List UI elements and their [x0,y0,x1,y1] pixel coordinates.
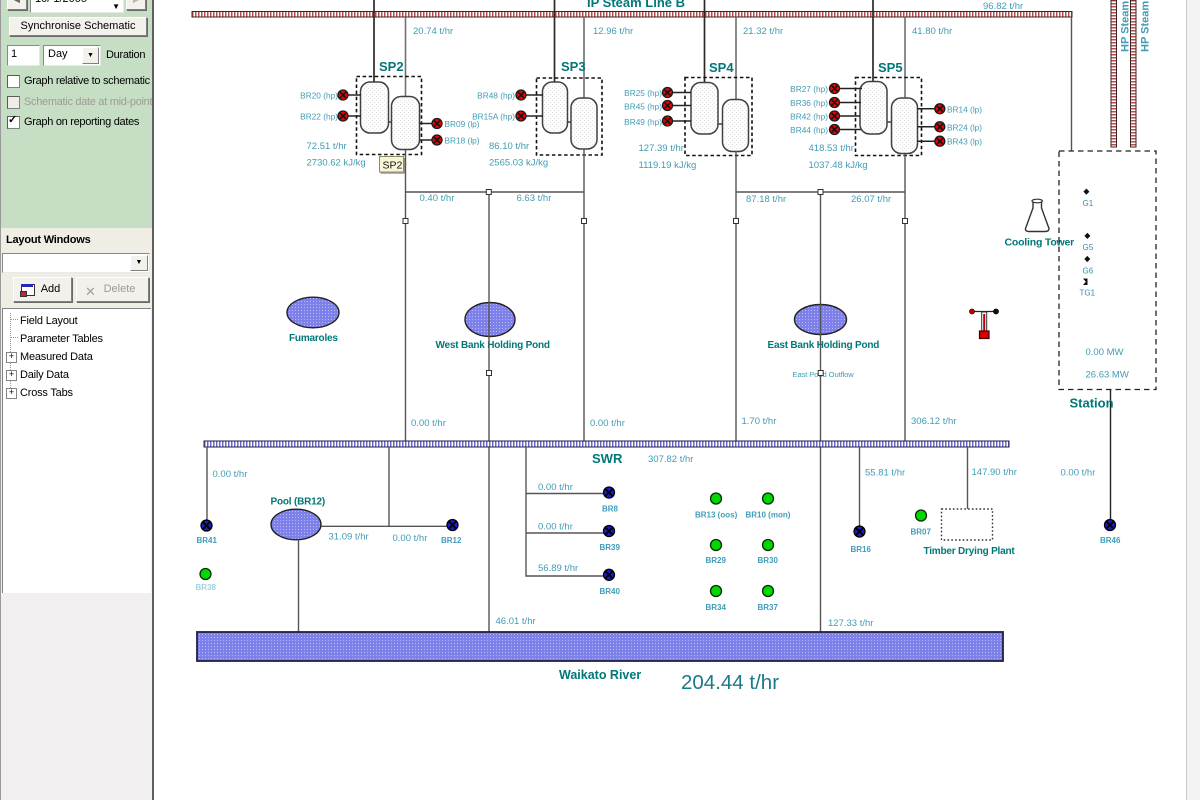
junction SP4 drop [734,219,739,224]
svg-text:G5: G5 [1083,243,1094,252]
svg-text:0.00 t/hr: 0.00 t/hr [393,533,428,544]
svg-text:Waikato River: Waikato River [559,668,641,682]
svg-text:BR36 (hp): BR36 (hp) [790,98,828,108]
bore BR14 [918,104,983,115]
bore BR20 [300,90,361,101]
svg-text:127.39 t/hr: 127.39 t/hr [639,143,684,154]
svg-text:Fumaroles: Fumaroles [289,333,338,344]
svg-text:0.00 t/hr: 0.00 t/hr [538,482,573,493]
svg-text:BR39: BR39 [600,543,621,552]
node BR13 [695,493,738,520]
svg-text:BR42 (hp): BR42 (hp) [790,112,828,122]
svg-text:Station: Station [1070,396,1114,411]
wire SP3 drop [583,149,585,441]
pipe HP steam 2 [1131,0,1152,147]
wire pool horizontal [321,525,448,527]
wire branch BR8 [526,493,604,495]
wire branch BR39 [526,532,604,534]
svg-text:BR34: BR34 [706,603,727,612]
svg-text:SP4: SP4 [709,60,734,75]
svg-text:BR41: BR41 [197,536,218,545]
svg-text:BR16: BR16 [851,545,872,554]
node East Pond Outflow [793,370,855,379]
generator G5 [1083,233,1094,252]
svg-text:SP2: SP2 [379,59,404,74]
junction west pond outflow [487,371,492,376]
turbine TG1 [1080,279,1096,298]
svg-text:BR27 (hp): BR27 (hp) [790,84,828,94]
pump symbol [970,309,999,339]
wire feed SP4 [704,0,706,83]
wire feed SP3 [554,0,556,82]
separator group SP5 [856,60,922,156]
svg-text:12.96 t/hr: 12.96 t/hr [593,26,633,37]
svg-text:204.44 t/hr: 204.44 t/hr [681,671,779,694]
svg-text:Timber Drying Plant: Timber Drying Plant [924,546,1016,557]
svg-text:1.70 t/hr: 1.70 t/hr [742,416,777,427]
svg-text:BR37: BR37 [758,603,779,612]
node BR34 [706,586,727,613]
svg-text:BR30: BR30 [758,556,779,565]
date fwd button [126,0,146,10]
svg-text:BR24 (lp): BR24 (lp) [947,122,982,132]
synchronise schematic button [9,17,147,36]
wire station to BR46 [1110,390,1112,520]
junction SP2 drop [403,219,408,224]
wire west collector [406,191,585,193]
svg-text:41.80 t/hr: 41.80 t/hr [912,26,952,37]
station box [1059,151,1156,390]
node BR37 [758,586,779,613]
svg-text:East Bank Holding Pond: East Bank Holding Pond [768,340,880,351]
svg-text:BR38: BR38 [196,583,217,592]
svg-text:0.40 t/hr: 0.40 t/hr [420,193,455,204]
svg-text:BR18 (lp): BR18 (lp) [445,136,480,146]
wire IP line to station [1071,17,1073,151]
wire BR41 [206,447,208,520]
wire pool feed [388,447,390,526]
svg-text:BR8: BR8 [602,505,619,514]
svg-text:46.01 t/hr: 46.01 t/hr [496,616,536,627]
cooling tower [1005,199,1075,248]
node BR41 [197,520,218,545]
tree [2,308,151,593]
svg-text:96.82 t/hr: 96.82 t/hr [983,1,1023,12]
svg-text:Pool (BR12): Pool (BR12) [271,497,325,508]
node BR12 [441,520,462,546]
svg-text:BR13 (oos): BR13 (oos) [695,511,738,520]
Layout Windows header [6,234,91,246]
svg-text:SP2: SP2 [383,160,403,172]
pool BR12 [271,497,325,540]
wire steam out SP2 [405,17,407,97]
node BR8 [602,487,619,514]
wire east collector [736,191,905,193]
node BR07 [911,510,932,537]
wire steam out SP3 [583,17,585,98]
bore BR36 [790,98,861,109]
checkbox: graph relative [7,75,20,88]
junction east collector [818,190,823,195]
svg-text:2565.03 kJ/kg: 2565.03 kJ/kg [489,158,548,169]
bore BR22 [300,111,361,122]
svg-text:BR29: BR29 [706,556,727,565]
wire SP2 drop [405,150,407,442]
svg-text:SP3: SP3 [561,59,586,74]
wire steam out SP5 [904,17,906,98]
svg-text:20.74 t/hr: 20.74 t/hr [413,26,453,37]
pipe SWR header [204,441,1009,447]
svg-text:306.12 t/hr: 306.12 t/hr [911,416,956,427]
svg-text:G6: G6 [1083,267,1094,276]
duration unit combo [43,45,101,66]
svg-text:87.18 t/hr: 87.18 t/hr [746,194,786,205]
bore BR27 [790,84,862,95]
bore BR42 [790,111,860,122]
layout combo [2,253,150,273]
node BR29 [706,540,727,566]
svg-text:55.81 t/hr: 55.81 t/hr [865,468,905,479]
pipe HP steam 1 [1111,0,1132,147]
wire SP4 drop [735,152,737,442]
svg-text:2730.62 kJ/kg: 2730.62 kJ/kg [307,158,366,169]
svg-text:147.90 t/hr: 147.90 t/hr [972,467,1017,478]
bore BR44 [790,125,861,136]
node BR10 [746,493,791,520]
svg-text:Cooling Tower: Cooling Tower [1005,237,1075,249]
junction west collector [486,190,491,195]
svg-text:0.00 MW: 0.00 MW [1086,347,1124,358]
svg-text:BR07: BR07 [911,528,932,537]
svg-text:TG1: TG1 [1080,289,1096,298]
svg-text:West Bank Holding Pond: West Bank Holding Pond [436,340,550,351]
svg-text:SWR: SWR [592,451,623,466]
bore BR09 [420,119,480,130]
checkbox: schematic date at mid-point (disabled) [7,96,20,109]
svg-text:BR14 (lp): BR14 (lp) [947,104,982,114]
svg-text:418.53 t/hr: 418.53 t/hr [809,143,854,154]
junction SP3 drop [582,219,587,224]
node BR40 [600,569,621,596]
svg-text:BR20 (hp): BR20 (hp) [300,91,338,101]
svg-text:BR44 (hp): BR44 (hp) [790,125,828,135]
node BR46 [1100,520,1121,546]
svg-text:BR43 (lp): BR43 (lp) [947,137,982,147]
wire BR16 [859,447,861,526]
wire pool to river [298,540,300,632]
svg-text:BR40: BR40 [600,587,621,596]
wire manifold BR8/39/40 [526,447,604,576]
svg-text:86.10 t/hr: 86.10 t/hr [489,141,529,152]
svg-text:21.32 t/hr: 21.32 t/hr [743,26,783,37]
separator group SP2 [357,59,422,155]
svg-text:26.07 t/hr: 26.07 t/hr [851,194,891,205]
svg-text:BR10 (mon): BR10 (mon) [746,511,791,520]
wire feed SP2 [373,0,375,82]
svg-text:BR25 (hp): BR25 (hp) [624,88,662,98]
date combo [30,0,124,13]
svg-text:1037.48 kJ/kg: 1037.48 kJ/kg [809,160,868,171]
junction SP5 drop [903,219,908,224]
tooltip SP2 [380,157,405,174]
checkbox: graph on reporting dates (checked) [7,116,20,129]
node BR39 [600,526,621,553]
svg-text:BR22 (hp): BR22 (hp) [300,112,338,122]
pond East Bank Holding Pond [768,305,880,352]
wire west pond drop [488,192,490,632]
pipe IP steam line [192,12,1072,18]
separator group SP3 [537,59,603,155]
wire timber drying plant [967,447,969,509]
svg-text:1119.19 kJ/kg: 1119.19 kJ/kg [639,160,697,171]
bore BR18 [420,135,480,146]
wire steam out SP4 [735,17,737,100]
svg-text:0.00 t/hr: 0.00 t/hr [590,418,625,429]
bore BR48 [477,90,543,101]
Add button [13,277,72,302]
svg-text:72.51 t/hr: 72.51 t/hr [307,141,347,152]
svg-text:HP Steam: HP Steam [1120,1,1132,52]
Delete button (disabled) [76,277,149,302]
svg-text:0.00 t/hr: 0.00 t/hr [538,522,573,533]
wire SP5 drop [904,154,906,442]
svg-text:BR12: BR12 [441,536,462,545]
separator group SP4 [685,60,752,156]
wire east pond drop [820,192,822,632]
generator G6 [1083,256,1094,276]
svg-text:HP Steam: HP Steam [1140,1,1152,52]
svg-text:307.82 t/hr: 307.82 t/hr [648,454,693,465]
node BR38 [196,569,217,593]
generator G1 [1083,189,1094,209]
svg-text:0.00 t/hr: 0.00 t/hr [213,469,248,480]
bore BR15A [472,111,543,122]
svg-text:BR46: BR46 [1100,536,1121,545]
svg-text:56.89 t/hr: 56.89 t/hr [538,563,578,574]
svg-text:SP5: SP5 [878,60,903,75]
pond West Bank Holding Pond [436,303,550,352]
svg-text:BR15A (hp): BR15A (hp) [472,112,515,122]
bore BR43 [918,136,983,147]
svg-text:IP Steam Line B: IP Steam Line B [587,0,685,10]
svg-text:BR49 (hp): BR49 (hp) [624,117,662,127]
bore BR49 [624,116,691,127]
svg-text:0.00 t/hr: 0.00 t/hr [1061,468,1096,479]
svg-text:BR45 (hp): BR45 (hp) [624,102,662,112]
bore BR25 [624,88,691,99]
svg-text:26.63 MW: 26.63 MW [1086,370,1129,381]
plant Timber Drying Plant [924,509,1016,557]
river Waikato [197,632,1003,682]
duration value edit [7,45,40,66]
wire feed SP5 [872,0,874,82]
svg-text:BR48 (hp): BR48 (hp) [477,91,515,101]
date back button [7,0,27,10]
node BR30 [758,540,779,566]
svg-text:127.33 t/hr: 127.33 t/hr [828,618,873,629]
svg-text:0.00 t/hr: 0.00 t/hr [411,418,446,429]
bore BR24 [918,122,983,133]
bore BR45 [624,101,691,112]
node BR16 [851,526,872,554]
svg-text:31.09 t/hr: 31.09 t/hr [329,532,369,543]
svg-text:G1: G1 [1083,199,1094,208]
svg-text:6.63 t/hr: 6.63 t/hr [517,193,552,204]
pond Fumaroles [287,297,339,344]
